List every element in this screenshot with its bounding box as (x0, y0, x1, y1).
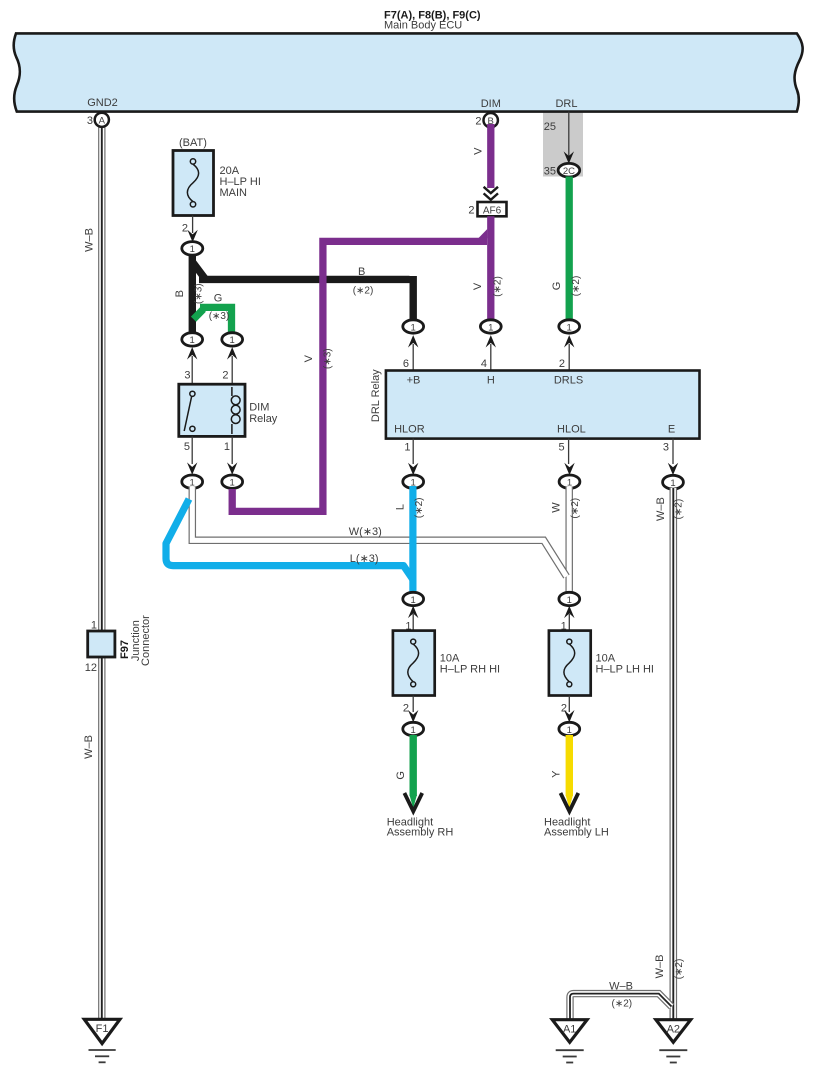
svg-text:(∗2): (∗2) (492, 276, 503, 297)
pin line 2 DIM relay (231, 356, 233, 384)
svg-text:6: 6 (403, 358, 409, 370)
svg-text:(∗2): (∗2) (674, 499, 685, 520)
pin line 1 HLOR (412, 439, 414, 464)
svg-text:(∗3): (∗3) (193, 283, 204, 304)
svg-text:L(∗3): L(∗3) (350, 553, 379, 565)
svg-text:(∗2): (∗2) (353, 286, 374, 297)
svg-text:DIM: DIM (249, 401, 269, 413)
arrows down into connectors below DRL relay (408, 463, 418, 475)
svg-text:W–B: W–B (609, 980, 633, 992)
svg-text:H–LP LH HI: H–LP LH HI (596, 664, 655, 676)
svg-text:V: V (303, 354, 315, 362)
svg-text:2: 2 (468, 205, 474, 217)
wire V from DIM to AF6 (487, 124, 494, 188)
svg-text:W–B: W–B (654, 955, 666, 979)
svg-text:Connector: Connector (140, 615, 152, 666)
pin line 3 E (672, 439, 674, 464)
svg-text:DRLS: DRLS (554, 375, 583, 387)
connector 1 below fuse RH (403, 722, 424, 735)
wire W(*3) branch from DIM relay pin 5 connector (192, 487, 566, 577)
svg-text:(∗2): (∗2) (571, 276, 582, 297)
svg-text:W(∗3): W(∗3) (349, 526, 382, 538)
connector AF6 pin 2 (478, 202, 507, 216)
connector 1 below fuse (182, 242, 203, 256)
connector 1 above DRL relay +B (403, 320, 424, 333)
svg-text:1: 1 (190, 244, 195, 255)
svg-text:V: V (472, 282, 484, 290)
fuse 10A H-LP LH HI (549, 631, 591, 696)
svg-text:3: 3 (87, 115, 93, 127)
svg-text:1: 1 (488, 322, 493, 333)
svg-text:1: 1 (190, 335, 195, 346)
junction connector F97 (88, 631, 115, 657)
gray shade DRL pass-through zone (543, 112, 583, 177)
svg-text:A2: A2 (667, 1023, 680, 1035)
pin line 1 fuse RH (412, 614, 414, 631)
svg-text:GND2: GND2 (87, 97, 118, 109)
wire Y to headlight LH (566, 735, 573, 796)
svg-text:V: V (472, 147, 484, 155)
ECU band Main Body ECU F7(A),F8(B),F9(C) (14, 33, 803, 111)
arrow up into connector (pin2) (227, 347, 237, 359)
svg-text:(∗2): (∗2) (570, 498, 581, 519)
svg-text:MAIN: MAIN (220, 187, 248, 199)
wire W-B branch to ground A1 (570, 994, 672, 1020)
ground A1 (552, 1020, 587, 1063)
svg-text:5: 5 (184, 441, 190, 453)
ground F1 (84, 1019, 120, 1062)
pin DIM connector B pin 2 (484, 113, 498, 127)
svg-text:B: B (358, 266, 365, 278)
svg-text:(∗3): (∗3) (209, 311, 230, 322)
svg-text:1: 1 (224, 441, 230, 453)
arrow down into connector (pin1) (227, 462, 237, 474)
arrows down into bottom connectors (408, 710, 418, 722)
svg-text:(∗2): (∗2) (674, 959, 685, 980)
svg-text:(BAT): (BAT) (179, 137, 207, 149)
svg-text:1: 1 (567, 725, 572, 736)
connector 1 above DRL relay DRLS (559, 320, 580, 333)
wire V branch chamfer (478, 229, 487, 238)
svg-text:1: 1 (411, 322, 416, 333)
connector 1 above fuse LH (559, 592, 580, 605)
svg-text:12: 12 (85, 662, 97, 674)
wire G from 2C to DRL relay DRLS (566, 177, 573, 323)
svg-text:1: 1 (567, 595, 572, 606)
svg-text:2C: 2C (563, 166, 575, 177)
svg-text:W: W (551, 502, 563, 513)
svg-text:3: 3 (663, 441, 669, 453)
svg-text:HLOR: HLOR (394, 423, 425, 435)
pin line 1 fuse LH (568, 614, 570, 631)
svg-text:DRL: DRL (555, 98, 577, 110)
arrows up into fuse-top connectors (408, 606, 418, 618)
svg-text:Main Body ECU: Main Body ECU (384, 20, 462, 32)
svg-text:HLOL: HLOL (557, 423, 586, 435)
pin line 1 DIM relay (231, 436, 233, 464)
wire W-B vertical E to ground A2 (669, 488, 677, 1020)
svg-text:Relay: Relay (249, 413, 278, 425)
wire L(*3) branch from DIM relay pin 5 connector (166, 499, 413, 580)
svg-text:(∗3): (∗3) (323, 348, 334, 369)
DIM relay coil (231, 387, 240, 434)
svg-text:G: G (551, 282, 563, 291)
svg-text:5: 5 (558, 441, 564, 453)
DIM Relay box (179, 384, 245, 436)
connector 1 below DIM relay pin 1 (222, 475, 243, 488)
svg-text:1: 1 (230, 335, 235, 346)
pin 2 of fuse (192, 216, 194, 234)
svg-text:W–B: W–B (83, 228, 95, 252)
connector 1 above DIM relay pin 3 (182, 333, 203, 346)
svg-text:1: 1 (567, 478, 572, 489)
svg-text:35: 35 (544, 165, 556, 177)
fuse 10A H-LP RH HI (393, 631, 435, 696)
svg-text:A1: A1 (563, 1023, 576, 1035)
wire G to headlight RH (410, 735, 417, 796)
wire B horizontal to DRL relay +B (199, 276, 413, 322)
ground A2 (656, 1020, 691, 1063)
DRL Relay box (386, 371, 700, 439)
svg-text:W–B: W–B (83, 735, 95, 759)
DIM relay switch contact (184, 391, 195, 431)
svg-text:L: L (395, 504, 407, 510)
connector 1 above DRL relay H (480, 320, 501, 333)
svg-text:H–LP RH HI: H–LP RH HI (440, 664, 500, 676)
connector 2C pin 35 (558, 163, 580, 177)
svg-text:2: 2 (182, 223, 188, 235)
pin line 5 DIM relay (191, 436, 193, 464)
svg-text:AF6: AF6 (483, 205, 502, 216)
svg-text:1: 1 (411, 725, 416, 736)
arrows up into connectors row (408, 335, 418, 347)
arrow into 2C (564, 151, 574, 163)
wire G branch from B to DIM relay pin 2 side (194, 309, 204, 319)
connector 1 below HLOR (403, 475, 424, 488)
wire B vertical from fuse connector (189, 254, 196, 333)
wire V below AF6 to DRL relay H (487, 216, 494, 322)
wire V branch to DIM relay coil: left, down, left, up (232, 241, 487, 511)
svg-text:(∗2): (∗2) (414, 497, 425, 518)
svg-text:1: 1 (91, 619, 97, 631)
svg-text:E: E (668, 423, 675, 435)
wire B branch chamfer (193, 262, 207, 280)
svg-text:25: 25 (544, 121, 556, 133)
wire W-B from GND2 to ground F1 (98, 124, 105, 1020)
arrow up into connector (pin3) (187, 347, 197, 359)
svg-text:1: 1 (190, 478, 195, 489)
svg-text:DRL Relay: DRL Relay (370, 369, 382, 422)
pin line 4 H (490, 344, 492, 371)
svg-text:1: 1 (567, 322, 572, 333)
svg-text:F1: F1 (96, 1023, 109, 1035)
svg-text:4: 4 (481, 358, 487, 370)
shield chevrons above AF6 (484, 187, 498, 200)
svg-text:W–B: W–B (655, 497, 667, 521)
svg-text:DIM: DIM (481, 98, 501, 110)
pin line 2 fuse LH (568, 696, 570, 713)
connector 1 above fuse RH (403, 592, 424, 605)
svg-text:1: 1 (230, 478, 235, 489)
DRL pin 25 line (568, 112, 570, 163)
svg-text:2: 2 (475, 115, 481, 127)
pin line 3 DIM relay (191, 356, 193, 384)
svg-text:B: B (174, 290, 186, 297)
svg-text:1: 1 (404, 441, 410, 453)
svg-text:2: 2 (559, 358, 565, 370)
svg-text:A: A (99, 116, 106, 127)
connector 1 below fuse LH (559, 722, 580, 735)
connector 1 below HLOL (559, 475, 580, 488)
arrow to Headlight Assembly LH (561, 793, 579, 811)
wire L vertical HLOR to fuse RH (409, 486, 416, 595)
svg-text:G: G (395, 771, 407, 780)
svg-text:3: 3 (184, 369, 190, 381)
svg-text:1: 1 (411, 595, 416, 606)
wire W vertical HLOL to fuse LH (565, 487, 573, 594)
arrow into connector below fuse (187, 230, 197, 242)
arrow to Headlight Assembly RH (404, 793, 422, 811)
connector 1 below DIM relay pin 5 (182, 475, 203, 488)
svg-text:G: G (214, 293, 223, 305)
svg-text:(∗2): (∗2) (611, 999, 632, 1010)
pin line 2 DRLS (568, 344, 570, 371)
svg-text:1: 1 (670, 478, 675, 489)
arrow down into connector (pin5) (187, 462, 197, 474)
connector A pin 3 (95, 113, 109, 127)
connector 1 above DIM relay pin 2 (222, 333, 243, 346)
svg-text:Y: Y (551, 770, 563, 778)
svg-text:2: 2 (403, 703, 409, 715)
pin line 6 +B (412, 344, 414, 371)
svg-text:+B: +B (407, 375, 421, 387)
svg-text:H: H (487, 375, 495, 387)
svg-text:2: 2 (222, 369, 228, 381)
svg-text:Assembly LH: Assembly LH (544, 826, 609, 838)
pin line 2 fuse RH (412, 696, 414, 713)
pin line 5 HLOL (568, 439, 570, 464)
svg-text:Assembly RH: Assembly RH (387, 826, 454, 838)
connector 1 below E (663, 475, 684, 489)
